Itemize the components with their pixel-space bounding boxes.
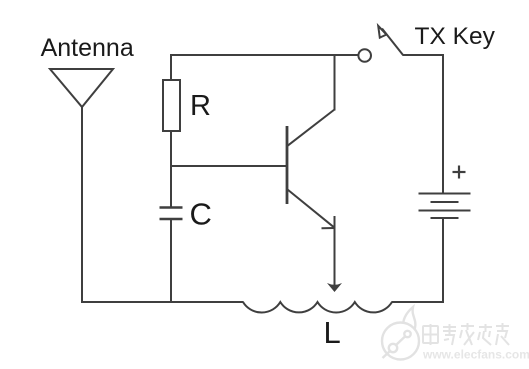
- wire R bottom to C top: [170, 131, 172, 207]
- svg-text:L: L: [324, 315, 341, 350]
- battery plus sign: [453, 166, 466, 179]
- svg-text:C: C: [190, 197, 212, 232]
- svg-text:TX Key: TX Key: [415, 23, 496, 50]
- switch S1 lever flag: [378, 26, 386, 38]
- battery BT1: [419, 194, 471, 219]
- wire bottom left segment: [81, 301, 244, 303]
- switch S1 contact circle: [358, 49, 371, 62]
- switch S1 lever: [382, 29, 403, 56]
- svg-text:Antenna: Antenna: [41, 34, 134, 62]
- resistor R: [163, 80, 180, 131]
- wire antenna lead: [81, 107, 83, 303]
- watermark chinese characters: [423, 323, 509, 345]
- wire C bottom lead: [170, 219, 172, 302]
- inductor tap arrow wire: [334, 216, 336, 286]
- wire right vertical to battery: [442, 54, 444, 194]
- transistor Q1: [287, 110, 335, 229]
- svg-text:www.elecfans.com: www.elecfans.com: [422, 348, 529, 362]
- svg-text:R: R: [190, 90, 211, 122]
- wire base: [170, 165, 287, 167]
- inductor tap arrowhead: [327, 283, 342, 292]
- wire R top lead: [170, 54, 172, 80]
- wire battery to bottom right corner: [442, 218, 444, 303]
- wire switch to right corner: [403, 54, 445, 56]
- wire top node (R top / collector / switch): [170, 54, 359, 56]
- wire collector up: [334, 56, 336, 111]
- inductor L: [243, 302, 392, 313]
- watermark elecfans logo: [382, 307, 419, 360]
- capacitor C: [160, 208, 183, 220]
- wire bottom right segment: [392, 301, 445, 303]
- antenna ANT1: [50, 69, 113, 107]
